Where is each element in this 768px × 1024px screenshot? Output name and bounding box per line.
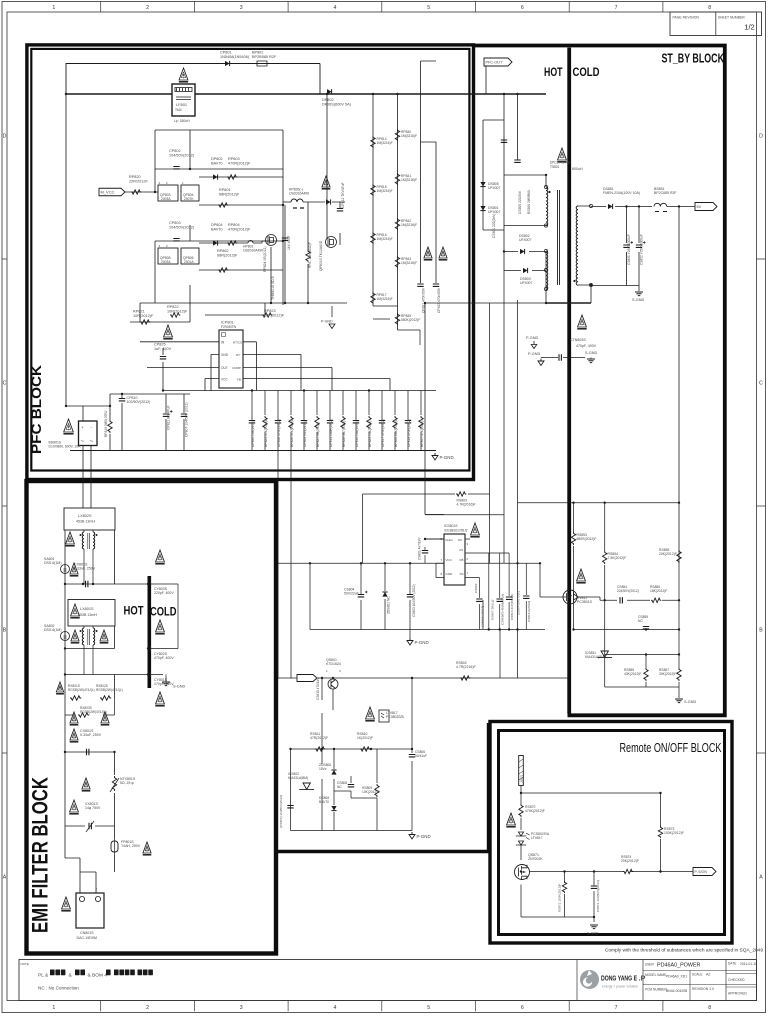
svg-text:OUT: OUT (221, 366, 228, 370)
svg-text:CS871 104(50V)(2012): CS871 104(50V)(2012) (596, 880, 600, 912)
transistor QS801 (328, 679, 338, 689)
svg-text:DAC-19D0M: DAC-19D0M (77, 936, 97, 940)
svg-text:CP802: CP802 (169, 149, 181, 153)
svg-text:104/50V (2012): 104/50V (2012) (481, 606, 485, 627)
svg-text:NC: NC (337, 785, 342, 789)
svg-text:Drain: Drain (446, 538, 454, 542)
capacitor CS808 (348, 785, 354, 787)
capacitor CP831 (417, 284, 423, 286)
svg-text:C: C (759, 381, 763, 387)
wire: lower rails (291, 678, 413, 831)
transformer TS801 (546, 187, 548, 226)
resistor RS811 (315, 747, 325, 751)
svg-text:3: 3 (240, 1005, 243, 1011)
resistor RS872 (562, 881, 566, 893)
svg-text:+: + (81, 425, 84, 430)
svg-text:D: D (759, 134, 763, 140)
resistor RX801S (70, 696, 81, 700)
svg-text:RP825 47K(2012)F: RP825 47K(2012)F (264, 419, 268, 447)
svg-text:4.7R(2216)F: 4.7R(2216)F (456, 665, 476, 669)
warning triangle BD801S (64, 419, 74, 432)
svg-text:RT: RT (236, 353, 240, 357)
svg-text:CP817 470n(2012): CP817 470n(2012) (381, 419, 385, 447)
svg-text:1uF, 450V: 1uF, 450V (154, 347, 172, 351)
capacitor CP805 (284, 205, 286, 303)
resistor RP827 (316, 391, 318, 451)
svg-text:1kV 47uF: 1kV 47uF (287, 235, 291, 250)
svg-text:600uH: 600uH (572, 167, 583, 171)
svg-text:DP802: DP802 (322, 98, 334, 102)
svg-text:SCALE: SCALE (692, 973, 702, 977)
svg-text:10K(2012)F: 10K(2012)F (264, 313, 285, 317)
wire: ladder rails (373, 61, 436, 330)
warning triangle CP831 (424, 247, 432, 258)
svg-text:RP803: RP803 (228, 157, 240, 161)
svg-text:CS810 470/1kV: CS810 470/1kV (316, 677, 320, 700)
svg-text:BAV70: BAV70 (319, 800, 329, 804)
svg-text:JS871: JS871 (520, 774, 524, 783)
svg-text:1: 1 (52, 5, 55, 11)
svg-text:50/41uF: 50/41uF (415, 754, 427, 758)
svg-text:KIA431A(BM): KIA431A(BM) (585, 655, 605, 659)
svg-text:1M(3216)F: 1M(3216)F (377, 297, 393, 301)
warning triangle remote (507, 813, 516, 825)
svg-text:SS: SS (460, 572, 464, 576)
svg-text:NC : No Connection: NC : No Connection (38, 986, 79, 991)
resistor RP807 (420, 391, 422, 451)
svg-text:0.33uF, 250V: 0.33uF, 250V (74, 567, 96, 571)
svg-text:NC: NC (638, 619, 643, 623)
transistor array QP805 (158, 248, 178, 264)
warning triangle CTN803S (578, 315, 587, 327)
svg-text:EPC3043A-AL: EPC3043A-AL (550, 161, 571, 165)
svg-text:CP806 104(2012): CP806 104(2012) (251, 421, 255, 447)
svg-text:VCC: VCC (446, 558, 453, 562)
svg-text:453B 13mH: 453B 13mH (76, 520, 95, 524)
svg-text:T4AH, 250V: T4AH, 250V (121, 844, 141, 848)
CS/FB caps row (479, 553, 526, 630)
svg-text:30K(2012)F: 30K(2012)F (659, 672, 676, 676)
svg-text:A: A (759, 875, 763, 881)
warning triangle RX803S r (101, 712, 109, 723)
svg-text:~: ~ (90, 438, 94, 445)
svg-text:RP806 68K(2012)F: RP806 68K(2012)F (394, 419, 398, 447)
svg-text:470R(2012)F: 470R(2012)F (228, 227, 251, 231)
svg-text:CP816 102(2012): CP816 102(2012) (355, 421, 359, 447)
resistor RP828 (342, 391, 344, 451)
svg-text:PAGE REVISION: PAGE REVISION (673, 16, 700, 20)
svg-text:CS805 222/2kV: CS805 222/2kV (518, 190, 522, 214)
capacitor CS804 (358, 595, 364, 597)
svg-text:RP823: RP823 (264, 309, 276, 313)
resistor RS873 (658, 826, 662, 838)
svg-text:0.33uF, 250V: 0.33uF, 250V (80, 733, 102, 737)
svg-text:DP804: DP804 (211, 223, 223, 227)
capacitor CS807 (287, 806, 293, 808)
resistor RS857 (677, 668, 681, 681)
diode DS802 (520, 249, 525, 254)
svg-text:PD46A0_POWER: PD46A0_POWER (657, 963, 701, 969)
svg-text:RP807 47K(2012): RP807 47K(2012) (420, 421, 424, 447)
capacitor CX801S (87, 749, 89, 755)
wire: M_VCC feed (125, 191, 160, 193)
capacitor CP816 (355, 391, 357, 451)
svg-text:1M(3216)F: 1M(3216)F (377, 189, 393, 193)
svg-text:DSS-6(1M): DSS-6(1M) (44, 628, 62, 632)
wire: opto drive down (567, 677, 569, 679)
capacitor CS813 (506, 597, 512, 599)
svg-text:PC3802S/B: PC3802S/B (386, 715, 404, 719)
svg-text:1: 1 (52, 1005, 55, 1011)
svg-text:8: 8 (708, 1005, 711, 1011)
svg-text:470R(2012)F: 470R(2012)F (228, 161, 251, 165)
warning triangle CN801S (62, 897, 71, 909)
wire grid control cluster (155, 130, 283, 305)
svg-text:LTV817: LTV817 (531, 836, 543, 840)
svg-text:2003A: 2003A (161, 197, 171, 201)
jumper JS871 (519, 756, 524, 786)
svg-text:1M(3216)F: 1M(3216)F (401, 134, 417, 138)
connector CN801S (76, 893, 104, 928)
hot area boundary line (274, 723, 489, 852)
svg-text:PFC BLOCK: PFC BLOCK (28, 365, 44, 454)
svg-text:RGSB(2W)474J(L): RGSB(2W)474J(L) (96, 688, 123, 692)
svg-text:EMI FILTER BLOCK: EMI FILTER BLOCK (28, 776, 53, 933)
resistor RS854 (603, 551, 607, 564)
shunt reg ICS851 (597, 651, 612, 657)
svg-text:BP2C685 R2F: BP2C685 R2F (654, 191, 677, 195)
diode DP802 on bus (327, 89, 332, 94)
svg-text:2007K: 2007K (184, 197, 194, 201)
IC ICP801 (219, 330, 243, 388)
common mode choke LX802S windings (82, 532, 84, 549)
svg-text:43K(2012)F: 43K(2012)F (624, 672, 641, 676)
svg-text:RP821: RP821 (133, 310, 145, 314)
svg-text:PL &: PL & (38, 973, 49, 979)
svg-text:P-GND: P-GND (528, 352, 540, 356)
svg-text:RP826 47K(2012)F: RP826 47K(2012)F (290, 419, 294, 447)
svg-text:CS813 4n7(2012)F: CS813 4n7(2012)F (510, 594, 514, 620)
S-GND sense (675, 699, 683, 703)
capacitor CP811 (165, 394, 167, 451)
warning triangle transformer (558, 148, 567, 160)
capacitor CS805 (514, 160, 520, 162)
svg-text:453B 13mH: 453B 13mH (78, 613, 97, 617)
capacitor CP817 (381, 391, 383, 451)
warning triangle CX802S (70, 563, 78, 574)
wire: PFC upper loop (66, 64, 320, 95)
svg-text:HOT: HOT (544, 65, 563, 79)
svg-text:ICE3BS01765JZ: ICE3BS01765JZ (444, 529, 468, 533)
svg-text:P-GND: P-GND (526, 336, 538, 340)
svg-text:RP819 5W0.07RJ: RP819 5W0.07RJ (104, 410, 108, 437)
diode DS808 (331, 806, 336, 811)
opto LTV817 (379, 710, 389, 722)
resistor RP816 (371, 232, 375, 244)
svg-text:CS852 Y25/T/1000uF: CS852 Y25/T/1000uF (640, 234, 644, 265)
mosfet QS871 (515, 865, 530, 880)
svg-text:BP2B585 R2F: BP2B585 R2F (252, 55, 277, 59)
warning triangle CX801S (70, 729, 78, 740)
svg-text:P-GND: P-GND (440, 455, 454, 460)
diode DP802b (213, 174, 218, 179)
svg-text:MODEL NAME: MODEL NAME (645, 973, 666, 977)
resistor RS810 (360, 747, 370, 751)
bead BS851 (654, 203, 667, 206)
svg-text:KTD1624: KTD1624 (326, 662, 341, 666)
warning triangle VX801S (70, 800, 79, 812)
svg-text:RP8.. 10K(2012)F: RP8.. 10K(2012)F (308, 242, 312, 268)
svg-text:220pF, 400V: 220pF, 400V (154, 591, 174, 595)
svg-text:CP801: CP801 (220, 51, 232, 55)
svg-text:1N5408(1N5406): 1N5408(1N5406) (220, 55, 250, 59)
capacitor CS815 (523, 596, 529, 598)
svg-text:KIA431A(BM): KIA431A(BM) (288, 776, 308, 780)
svg-text:USER: USER (645, 963, 655, 967)
P-GND flag ICS (407, 638, 413, 645)
warning triangle LF801 (179, 68, 188, 80)
svg-text:VCC: VCC (221, 378, 228, 382)
fuse FP801S (111, 841, 118, 852)
resistor RP843 (395, 256, 399, 268)
wire: bridge feed (66, 94, 190, 421)
transistor array QP803 (158, 185, 178, 201)
svg-text:CS815 A(2012): CS815 A(2012) (527, 601, 531, 622)
svg-text:8: 8 (708, 5, 711, 11)
svg-text:FB: FB (237, 378, 241, 382)
wire: sense network (518, 503, 680, 698)
resistor RP821 (140, 320, 150, 324)
svg-text:THM801S 5D-9: THM801S 5D-9 (271, 276, 275, 300)
resistor RP815 (371, 184, 375, 196)
svg-text:1M(3216)F: 1M(3216)F (377, 237, 393, 241)
warning triangle CY802S (156, 620, 165, 632)
svg-text:RP822: RP822 (167, 305, 179, 309)
svg-text:P-GND: P-GND (321, 320, 333, 324)
svg-text:RP820: RP820 (129, 175, 141, 179)
warning triangle RX803S l (70, 712, 78, 723)
resistor RP845 (395, 313, 399, 325)
svg-text:CP811 82µ47uF: CP811 82µ47uF (167, 405, 171, 430)
diode DS851 (608, 204, 613, 209)
diode DS801 (480, 206, 485, 211)
svg-text:7.5K(2012)F: 7.5K(2012)F (608, 556, 627, 560)
warning triangle CP825 (164, 325, 173, 337)
svg-text:BP802: BP802 (252, 51, 263, 55)
svg-text:CS851 Y25/T/1000uF: CS851 Y25/T/1000uF (627, 234, 631, 265)
resistor RP820 (131, 190, 141, 194)
svg-text:LF801: LF801 (176, 102, 187, 107)
wire: opto connections (540, 563, 679, 600)
resistor RP860 (307, 202, 309, 303)
svg-text:RP862: RP862 (217, 249, 229, 253)
resistor RS870 (519, 804, 523, 817)
warning triangle CY801S (156, 692, 165, 704)
svg-text:DONG YANG E: DONG YANG E (601, 974, 637, 983)
warning triangle CY803S (156, 550, 165, 562)
svg-text:CP818 470n(2012): CP818 470n(2012) (407, 419, 411, 447)
svg-text:REVISION 1.0: REVISION 1.0 (692, 987, 714, 991)
S-GND remote (590, 925, 598, 929)
svg-text:1M(3216)F: 1M(3216)F (401, 178, 417, 182)
warning triangle choke2 left (71, 630, 79, 641)
capacitor CS871 (591, 886, 597, 888)
resistor RS803 (456, 492, 466, 496)
warning triangle DP806 (322, 176, 330, 187)
svg-text:6: 6 (521, 5, 524, 11)
capacitor CS806 (409, 755, 415, 757)
flag M_VCC (99, 188, 125, 196)
HOT/COLD divider (ST_BY) (567, 48, 571, 714)
svg-text:1/2: 1/2 (744, 23, 754, 32)
svg-text:CB2010A490: CB2010A490 (243, 249, 263, 253)
svg-text:RS807 2W(L)J: RS807 2W(L)J (491, 599, 495, 620)
wire: caps top rail (163, 390, 436, 392)
zener ZDS801 (382, 592, 387, 597)
resistor RP804 (227, 241, 237, 245)
svg-text:COLD: COLD (573, 65, 600, 79)
svg-text:50V/22uF: 50V/22uF (344, 592, 359, 596)
svg-text:S-GND: S-GND (587, 932, 599, 936)
bead HP801 (248, 241, 253, 243)
wire: P-GND bus (70, 450, 436, 452)
transistor array QP804 (181, 185, 199, 201)
svg-text:RGSB(2W)474J(L): RGSB(2W)474J(L) (80, 710, 107, 714)
svg-text:BAV70: BAV70 (211, 161, 223, 165)
remote on/off block border (490, 722, 732, 944)
svg-text:CP807 104/50V (2012): CP807 104/50V (2012) (185, 402, 189, 437)
resistor RP803 (227, 175, 237, 179)
warning triangle LTV817 (366, 707, 375, 719)
svg-text:22R/2012F: 22R/2012F (129, 179, 148, 183)
capacitor CP808 (277, 391, 279, 451)
warning triangle CP832 (439, 247, 447, 258)
svg-text:ZDS801 NC: ZDS801 NC (387, 596, 391, 614)
optocoupler TV817 (563, 590, 577, 604)
svg-text:100K(2012)F: 100K(2012)F (664, 831, 684, 835)
svg-text:CS803 104/50V (2012): CS803 104/50V (2012) (412, 584, 416, 617)
diode DS805 (480, 182, 485, 187)
svg-text:RP829 10K(2012): RP829 10K(2012) (368, 421, 372, 447)
svg-text:D: D (3, 134, 7, 140)
svg-text:PC3801S: PC3801S (577, 600, 593, 604)
svg-text:10K(2012)F: 10K(2012)F (362, 790, 379, 794)
svg-text:RS872 100K(2012)F: RS872 100K(2012)F (558, 884, 562, 912)
svg-text:(CS807) 104/50V(2012): (CS807) 104/50V(2012) (279, 795, 283, 828)
svg-text:RP828 4K7(2012): RP828 4K7(2012) (342, 421, 346, 447)
bead LP802 (283, 201, 291, 203)
svg-text:470pF, 400V: 470pF, 400V (154, 656, 174, 660)
P-GND low (409, 832, 415, 839)
svg-text:NOTE: NOTE (21, 962, 29, 966)
svg-text:4.7R(2016)F: 4.7R(2016)F (457, 503, 476, 507)
warning triangle FP801S (143, 842, 151, 853)
svg-text:7: 7 (615, 1005, 618, 1011)
wire: ICS801 pins (425, 539, 540, 578)
svg-text:470pF, 400V: 470pF, 400V (576, 344, 597, 348)
svg-text:68R(2012)F: 68R(2012)F (217, 253, 238, 257)
svg-text:224/50V(2012): 224/50V(2012) (617, 589, 639, 593)
wire: RS803 path (363, 271, 518, 679)
wire: ladder bottoms (373, 306, 420, 345)
resistor RS858 (644, 668, 648, 681)
resistor RS802 (460, 676, 470, 680)
flag AC_DET (297, 675, 317, 682)
resistor RP817 (371, 292, 375, 304)
S-GND secondary (635, 292, 643, 296)
svg-text:LX801S: LX801S (80, 607, 94, 611)
svg-text:4: 4 (334, 5, 337, 11)
wire: PFC aux feeds down (278, 451, 291, 679)
wire: IC fan-out (140, 342, 390, 391)
resistor RP819 (109, 406, 111, 451)
svg-text:TS801: TS801 (550, 165, 560, 169)
svg-text:RGSB(2W)474J(L): RGSB(2W)474J(L) (68, 688, 95, 692)
inductor LF801 (172, 84, 195, 116)
resistor RS809 (375, 784, 379, 797)
svg-text:PCM NUMBER: PCM NUMBER (645, 988, 667, 992)
svg-text:RP804: RP804 (228, 223, 240, 227)
svg-text:5Ω, 25 φ: 5Ω, 25 φ (120, 781, 134, 785)
EMI filter block border (27, 481, 277, 954)
svg-text:S-GND: S-GND (632, 298, 644, 302)
capacitor CP812 (337, 209, 343, 211)
capacitor CP807 (183, 394, 185, 451)
svg-text:2N7002K: 2N7002K (528, 857, 543, 861)
svg-text:3: 3 (240, 5, 243, 11)
svg-text:D10XB60, 600V, 10A: D10XB60, 600V, 10A (49, 445, 82, 449)
warning triangle LX801S (71, 604, 80, 616)
wire: PFC-OUT flag (484, 58, 512, 66)
S-GND mid (587, 359, 595, 363)
svg-text:2011-01-18: 2011-01-18 (740, 962, 757, 966)
svg-text:CS809(F) 45(R)(3216): CS809(F) 45(R)(3216) (500, 594, 504, 625)
svg-text:A2: A2 (706, 973, 710, 977)
thermistor NTX801S (112, 776, 116, 791)
capacitor CS803 (407, 595, 413, 597)
svg-text:CP825: CP825 (154, 343, 166, 347)
capacitor CS852 (636, 245, 642, 247)
mosfet QP801S (326, 237, 337, 248)
svg-text:~: ~ (81, 438, 85, 445)
svg-text:UF4007: UF4007 (520, 281, 533, 285)
wire: PFC top bus (66, 93, 476, 95)
svg-text:DS804 BAV70(F): DS804 BAV70(F) (517, 591, 521, 615)
resistor RS856 (651, 598, 661, 602)
svg-text:2003A: 2003A (161, 260, 171, 264)
capacitor CP809 (303, 391, 305, 451)
svg-text:14φ 750V: 14φ 750V (85, 806, 101, 810)
resistor RP823 (262, 313, 272, 317)
svg-text:energy + power solution: energy + power solution (602, 985, 638, 989)
capacitor CP810 (121, 394, 123, 451)
flag P-S/ON (693, 868, 716, 876)
svg-text:RP824 0R(2012): RP824 0R(2012) (263, 247, 267, 272)
svg-text:2: 2 (96, 888, 98, 892)
resistor RS874 (623, 869, 633, 873)
svg-text:104/50V(2012): 104/50V(2012) (169, 225, 195, 229)
svg-text:BAV70: BAV70 (211, 227, 223, 231)
svg-text:PFC-OUT: PFC-OUT (486, 61, 504, 65)
opto PCS802S/A (516, 832, 526, 845)
surge arrester SA801 (61, 565, 70, 574)
capacitor CS801b (424, 547, 426, 563)
svg-text:10R(2012)F: 10R(2012)F (133, 314, 154, 318)
varistor VX801S (89, 823, 91, 829)
resistor RP814 (371, 136, 375, 148)
svg-text:680R(2012)F: 680R(2012)F (577, 537, 597, 541)
svg-text:6: 6 (521, 1005, 524, 1011)
